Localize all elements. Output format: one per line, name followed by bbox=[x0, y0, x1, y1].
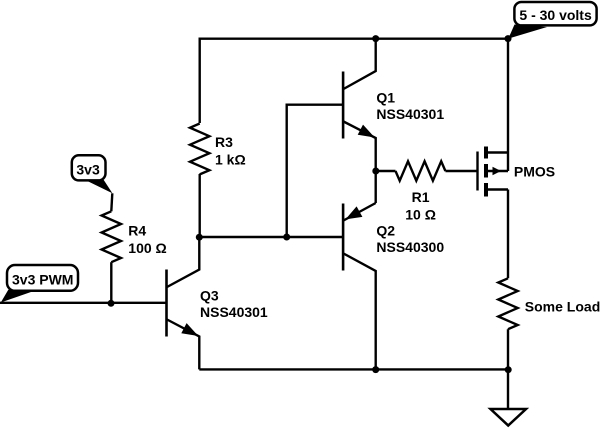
svg-text:1 kΩ: 1 kΩ bbox=[215, 151, 246, 167]
flag 3v3 PWM bbox=[1, 265, 78, 303]
transistor Q2 bbox=[343, 203, 376, 369]
wire base bus bbox=[200, 236, 343, 238]
svg-text:5 - 30 volts: 5 - 30 volts bbox=[519, 7, 592, 23]
svg-text:10 Ω: 10 Ω bbox=[405, 207, 436, 223]
label R1 value bbox=[405, 189, 436, 223]
svg-text:3v3: 3v3 bbox=[76, 161, 100, 177]
label Q2 bbox=[376, 222, 444, 255]
svg-text:PMOS: PMOS bbox=[514, 163, 555, 179]
svg-text:100 Ω: 100 Ω bbox=[128, 240, 166, 256]
wire Q1 base link bbox=[287, 105, 343, 237]
label Q3 bbox=[200, 288, 268, 321]
svg-text:3v3 PWM: 3v3 PWM bbox=[12, 272, 73, 288]
svg-text:R3: R3 bbox=[215, 134, 233, 150]
svg-text:NSS40301: NSS40301 bbox=[376, 106, 444, 122]
wire bottom rail bbox=[199, 368, 508, 370]
transistor Q1 bbox=[343, 39, 376, 203]
svg-text:NSS40301: NSS40301 bbox=[200, 304, 268, 320]
resistor Some Load bbox=[498, 278, 517, 369]
node load bottom / ground bbox=[505, 366, 512, 373]
svg-text:R4: R4 bbox=[128, 222, 146, 238]
node Q1 base / bus bbox=[283, 234, 290, 241]
resistor R4 bbox=[102, 193, 121, 302]
svg-text:R1: R1 bbox=[412, 189, 430, 205]
ground bbox=[491, 370, 527, 426]
label R3 value bbox=[215, 134, 246, 168]
label R4 value bbox=[128, 222, 166, 256]
node V+ flag bbox=[505, 35, 512, 42]
svg-text:Q1: Q1 bbox=[376, 89, 395, 105]
label Q1 bbox=[376, 89, 444, 122]
svg-text:Some Load: Some Load bbox=[525, 298, 600, 314]
wire R3 bottom lead bbox=[198, 174, 200, 237]
resistor R1 bbox=[376, 161, 477, 180]
flag 5 - 30 volts bbox=[508, 2, 596, 39]
MOSFET PMOS bbox=[478, 147, 509, 197]
node R4 bottom bbox=[108, 300, 115, 307]
wire Q3 base bbox=[0, 302, 167, 304]
node junction dots bbox=[108, 35, 512, 373]
node Q2 collector / bottom rail bbox=[372, 366, 379, 373]
resistor R3 bbox=[190, 124, 209, 175]
transistor Q3 bbox=[167, 237, 200, 369]
svg-text:Q3: Q3 bbox=[200, 288, 219, 304]
wire top rail bbox=[200, 39, 508, 123]
svg-text:Q2: Q2 bbox=[376, 222, 395, 238]
node R1 left bbox=[372, 168, 379, 175]
svg-text:NSS40300: NSS40300 bbox=[376, 239, 444, 255]
node R3 bottom bbox=[196, 234, 203, 241]
wire V+ vertical to PMOS source bbox=[507, 39, 509, 171]
wire PMOS drain to load bbox=[507, 190, 509, 279]
flag 3v3 bbox=[72, 155, 113, 193]
node top rail / Q1 collector bbox=[372, 35, 379, 42]
